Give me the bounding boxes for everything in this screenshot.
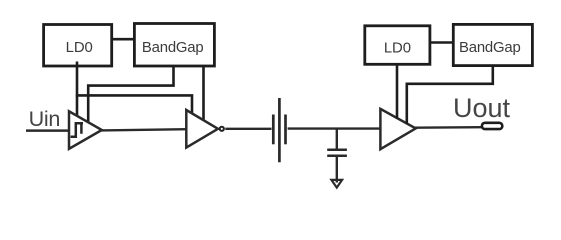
svg-text:LD0: LD0 [66,40,93,56]
block BandGap (left) [134,24,214,67]
svg-text:LD0: LD0 [384,40,411,56]
svg-text:Uout: Uout [453,93,511,123]
svg-text:BandGap: BandGap [459,40,521,56]
hysteresis symbol inside U1 [71,123,83,136]
wire C3 to ground [336,157,338,183]
block BandGap (right) [453,24,532,65]
op-amp U1 (Schmitt input buffer) [69,111,102,149]
capacitor C3 bottom plate [327,155,347,158]
svg-text:BandGap: BandGap [142,40,204,56]
inverter U2 output bubble [220,127,224,131]
svg-text:Uin: Uin [29,106,61,131]
capacitor barrier left plate [272,115,275,145]
inverter U2 [186,110,218,148]
capacitor barrier right plate [284,115,287,145]
wire U3 output [415,126,483,129]
wire BandGap(left) supply to U1 [88,65,173,123]
wire BandGap(left) supply to U2 [202,65,205,121]
block LD0 (left) [44,25,112,67]
wire LD0-BandGap link (right) [429,41,455,44]
wire LDO(left) supply to U2 [76,95,192,115]
wire Uin input [26,129,70,132]
wire BandGap(right) supply to U3 [407,65,493,125]
wire barrier to U3 input [288,127,381,129]
wire U1 output to U2 input [101,129,188,130]
wire LDO(left) supply down to U1 [76,62,79,118]
wire U2 output to barrier [225,128,271,130]
block LD0 (right) [365,26,430,65]
terminal Uout pad [482,123,502,129]
ground symbol [331,180,342,188]
op-amp U3 (output buffer) [380,109,415,149]
wire LD0-BandGap link (left) [111,38,135,41]
capacitor barrier center plate [278,98,281,162]
wire shunt capacitor tap [336,129,338,149]
capacitor C3 top plate [327,149,347,152]
wire LDO(right) supply to U3 [396,64,399,119]
